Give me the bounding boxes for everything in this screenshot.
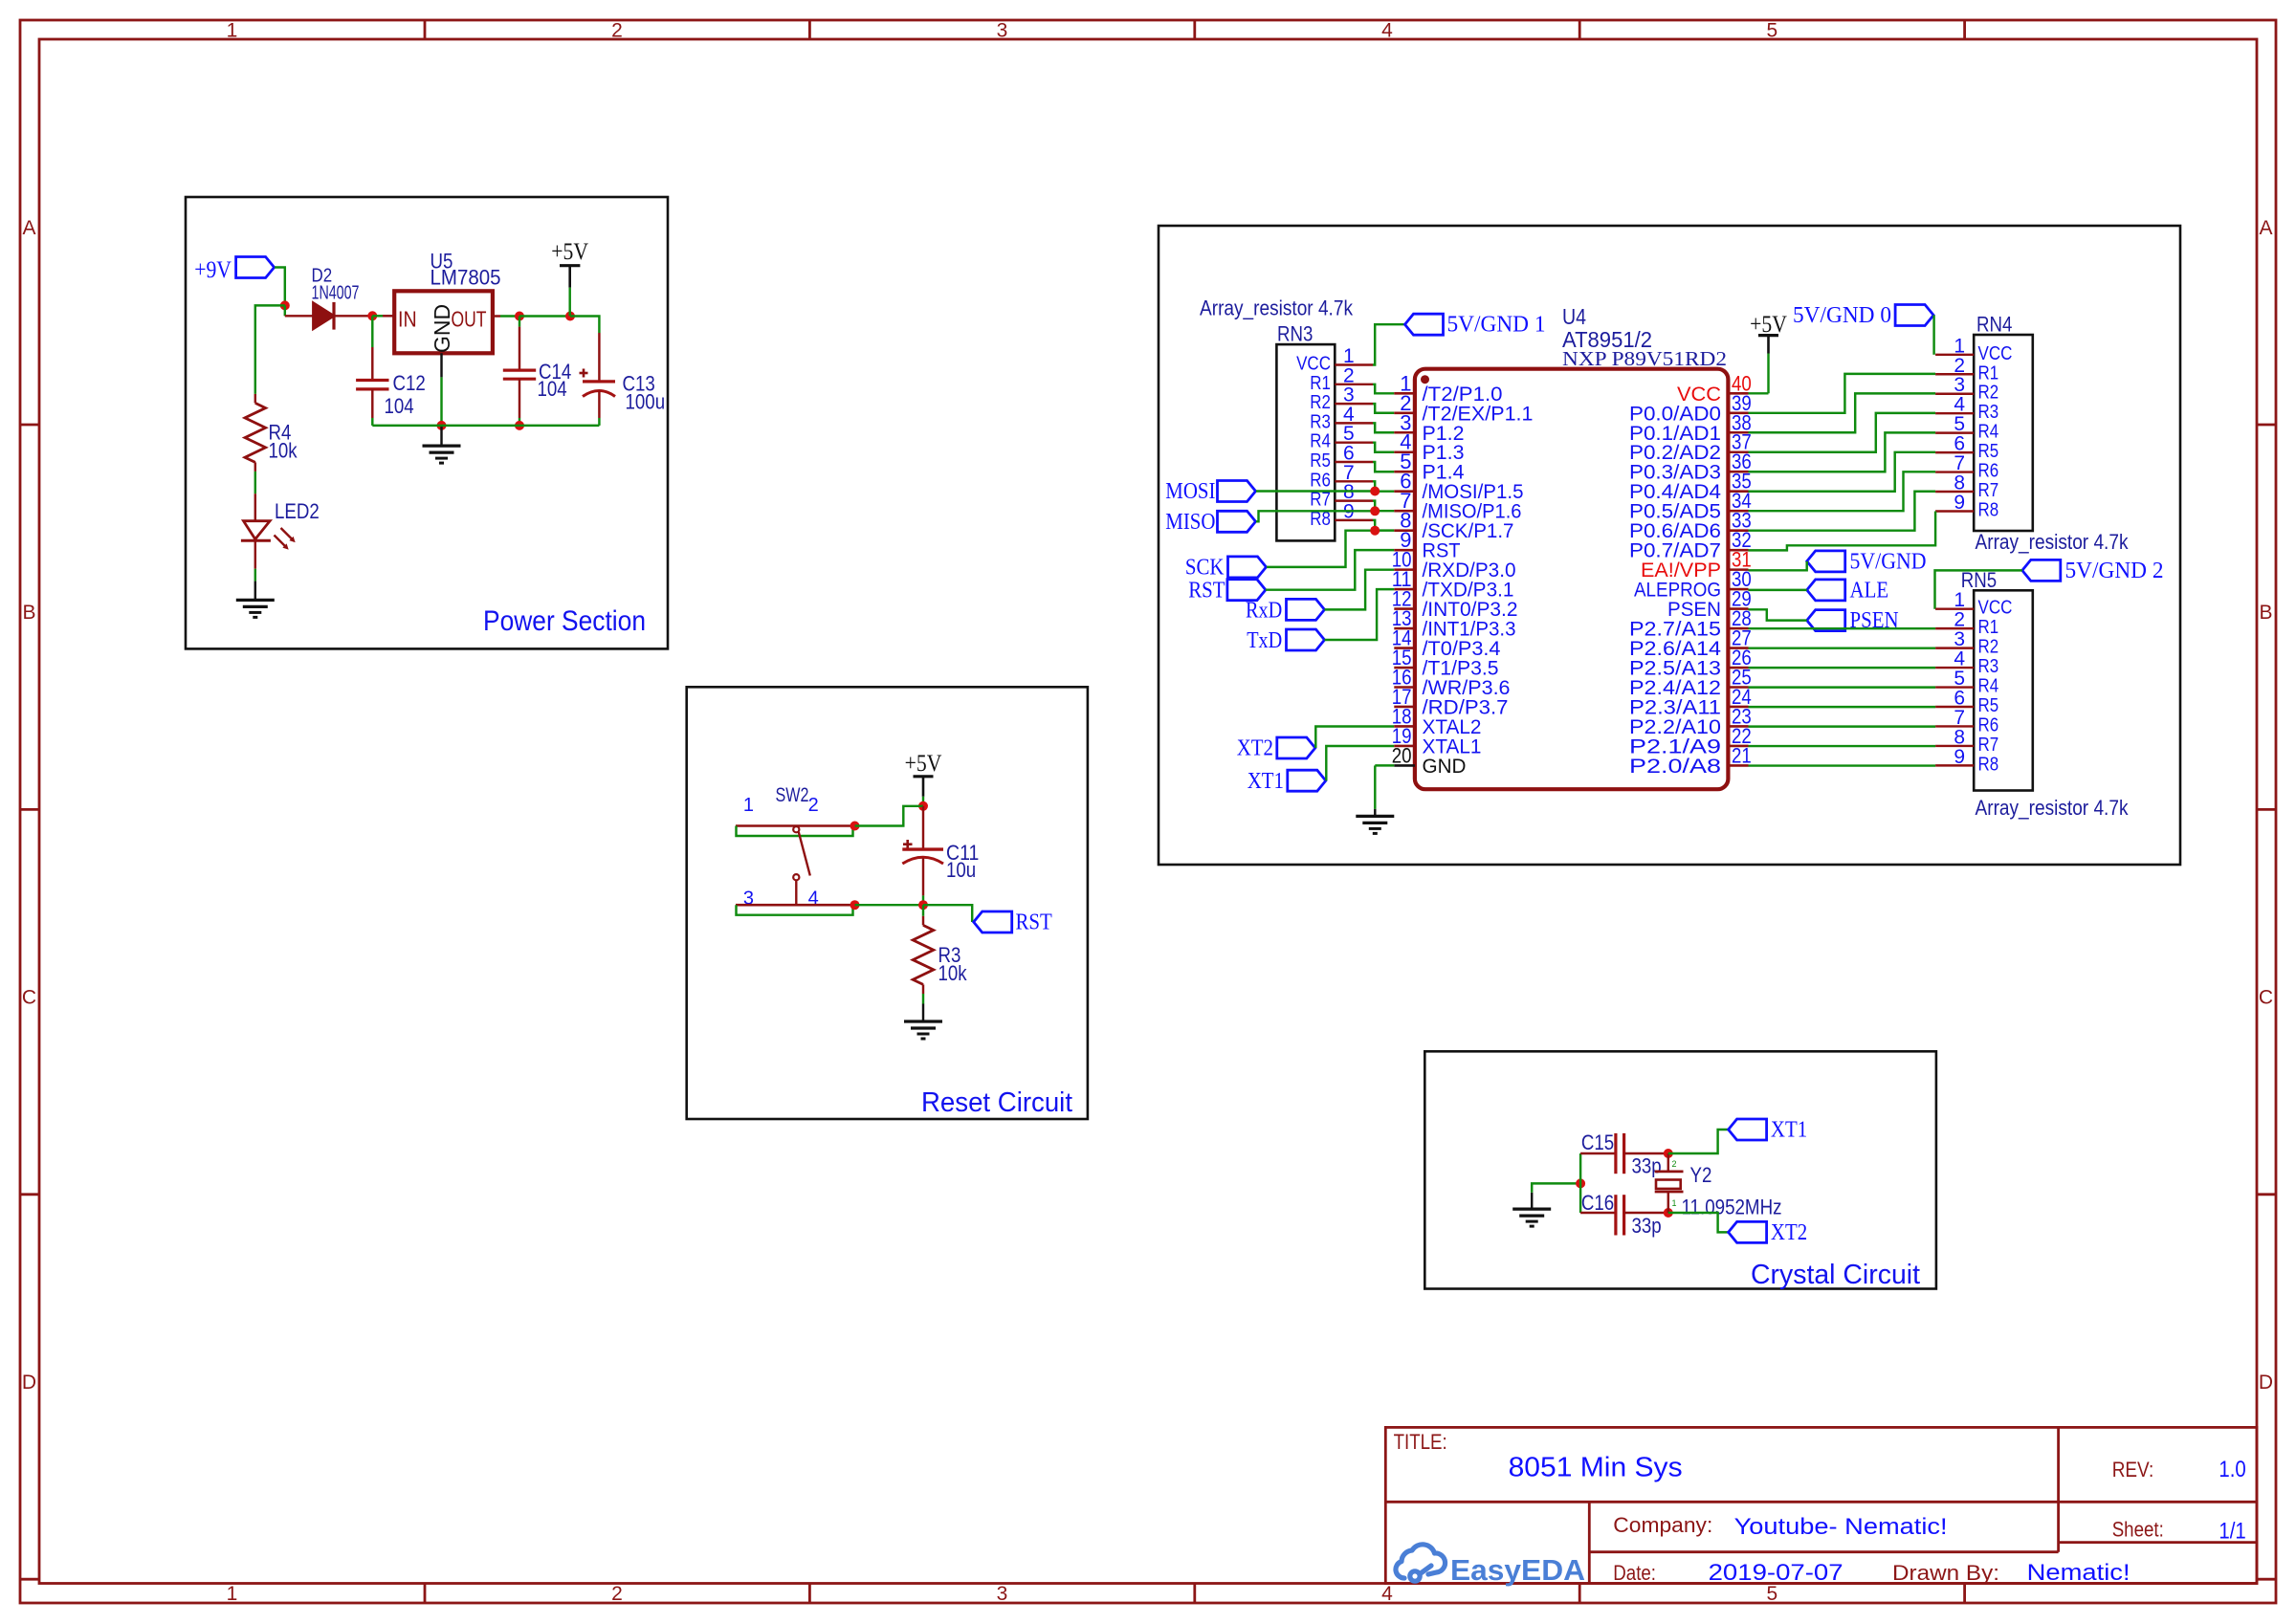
frame row ticks right: [2257, 424, 2276, 427]
RST net flag mcu: [1227, 580, 1266, 601]
+5V power symbol power section: [560, 264, 580, 267]
RN3 pin 9 stub: [1335, 519, 1373, 521]
wire XT1 to pin19 XTAL1: [1326, 746, 1394, 780]
svg-text:ALE: ALE: [1850, 578, 1889, 603]
svg-text:XT2: XT2: [1771, 1220, 1807, 1245]
MCU pin 19 stub: [1394, 745, 1415, 748]
MCU pin 35 stub: [1728, 490, 1748, 493]
XT1 net flag crystal: [1729, 1119, 1767, 1140]
svg-text:R7: R7: [1978, 735, 1999, 756]
wire RN3 pin1 to 5V/GND 1 flag: [1373, 324, 1405, 364]
RN4 pin 9 stub: [1935, 510, 1974, 512]
junction +9V node: [280, 300, 290, 310]
XT1 net flag: [1288, 770, 1326, 791]
RN4 pin 2 stub: [1935, 373, 1974, 375]
MOSI net flag: [1218, 481, 1256, 502]
MCU pin 18 stub: [1394, 725, 1415, 728]
MCU pin 24 stub: [1728, 706, 1748, 709]
svg-text:U4: U4: [1562, 304, 1586, 329]
RN3 pin 6 stub: [1335, 461, 1373, 463]
wire RN3 pin5 to MCU pin4: [1373, 443, 1394, 452]
svg-text:2: 2: [611, 1583, 623, 1605]
ground stem below U5: [440, 426, 442, 446]
svg-text:10k: 10k: [269, 439, 298, 463]
junction MOSI: [1370, 487, 1380, 496]
svg-text:EasyEDA: EasyEDA: [1450, 1553, 1585, 1587]
svg-text:1.0: 1.0: [2219, 1457, 2245, 1482]
wire RST to pin9: [1266, 550, 1394, 590]
wire MCU pin26 to RN5 pin4: [1749, 667, 1936, 669]
SCK net flag: [1228, 557, 1267, 578]
wire RN3 pin4 to MCU pin3: [1373, 423, 1394, 432]
MCU pin 23 stub: [1728, 725, 1748, 728]
MCU pin 13 stub: [1394, 627, 1415, 630]
MCU first pin dot: [1421, 375, 1429, 384]
svg-text:2: 2: [611, 20, 623, 42]
svg-text:2: 2: [1672, 1159, 1677, 1169]
junction U5 GND at rail: [437, 421, 447, 430]
svg-text:R4: R4: [1978, 676, 1999, 697]
wire RxD to pin10: [1325, 570, 1395, 610]
svg-text:R3: R3: [1310, 411, 1331, 432]
wire TxD to pin11: [1325, 589, 1395, 640]
svg-text:C16: C16: [1581, 1191, 1614, 1215]
wire MCU pin33 to RN4 pin8: [1749, 492, 1936, 531]
svg-text:B: B: [22, 602, 35, 624]
svg-text:R5: R5: [1978, 695, 1999, 716]
RN5 pin 1 stub: [1935, 607, 1974, 609]
svg-text:R2: R2: [1978, 383, 1999, 404]
MCU pin 30 stub: [1728, 588, 1748, 591]
PSEN net flag: [1807, 610, 1845, 631]
svg-text:+5V: +5V: [551, 239, 588, 265]
MCU U4 box: [1415, 369, 1729, 790]
svg-text:A: A: [2259, 217, 2272, 239]
MCU pin 1 stub: [1394, 392, 1415, 395]
svg-text:33p: 33p: [1632, 1154, 1662, 1178]
+5V power symbol reset: [914, 775, 934, 778]
wire MCU pin21 to RN5 pin9: [1749, 764, 1936, 766]
ground stem crystal: [1531, 1193, 1533, 1209]
svg-text:R5: R5: [1978, 441, 1999, 462]
LED2 bottom lead: [254, 540, 256, 568]
wire RN3 pin6 to MCU pin5: [1373, 462, 1394, 472]
svg-text:R8: R8: [1978, 499, 1999, 520]
svg-text:REV:: REV:: [2112, 1458, 2154, 1481]
svg-text:R2: R2: [1978, 637, 1999, 658]
svg-text:3: 3: [997, 20, 1008, 42]
junction at IN / C12: [367, 311, 377, 320]
svg-text:11.0952MHz: 11.0952MHz: [1682, 1196, 1782, 1219]
capacitor C11 top lead: [922, 806, 924, 849]
wire RN3 pin2 to MCU pin1: [1373, 384, 1394, 394]
wire R3 to ground: [922, 994, 924, 1004]
svg-text:VCC: VCC: [1978, 343, 2013, 364]
capacitor C11: [902, 847, 943, 850]
svg-text:9: 9: [1954, 746, 1965, 768]
svg-text:5V/GND 2: 5V/GND 2: [2065, 559, 2164, 583]
MCU pin 31 stub: [1728, 568, 1748, 571]
wire 5V/GND 0 to RN4 pin1: [1932, 316, 1934, 355]
TxD net flag: [1287, 629, 1325, 650]
MCU pin 14 stub: [1394, 647, 1415, 649]
svg-text:R4: R4: [1310, 431, 1331, 452]
wire MISO: [1256, 511, 1375, 521]
svg-text:Crystal Circuit: Crystal Circuit: [1751, 1260, 1920, 1290]
svg-text:P2.0/A8: P2.0/A8: [1629, 756, 1721, 778]
5V/GND 2 net flag: [2022, 560, 2061, 581]
ground symbol reset: [904, 1020, 942, 1022]
wire pin29 to PSEN flag: [1749, 609, 1807, 620]
svg-text:1N4007: 1N4007: [312, 283, 360, 304]
MCU pin 2 stub: [1394, 411, 1415, 414]
svg-text:20: 20: [1392, 743, 1412, 767]
resistor network RN3 box: [1276, 344, 1335, 540]
capacitor C16: [1580, 1212, 1616, 1214]
wire +9V to junction: [275, 268, 285, 306]
wire XT2 to pin18 XTAL2: [1315, 727, 1394, 749]
RN5 pin 3 stub: [1935, 647, 1974, 648]
junction C11 R3 RST: [918, 900, 928, 910]
MCU pin 28 stub: [1728, 627, 1748, 630]
svg-text:Y2: Y2: [1690, 1163, 1712, 1187]
svg-text:10u: 10u: [946, 858, 976, 882]
wire MCU pin39 to RN4 pin2: [1749, 374, 1936, 413]
C12 bottom lead: [371, 389, 373, 418]
MCU pin 10 stub: [1394, 568, 1415, 571]
wire 5V/GND 2 to RN5 pin1: [1935, 570, 2022, 608]
RN5 pin 2 stub: [1935, 627, 1974, 629]
MCU pin 27 stub: [1728, 647, 1748, 649]
MCU pin 40 stub: [1728, 392, 1748, 395]
svg-text:IN: IN: [398, 307, 417, 332]
wire OUT pin: [493, 315, 500, 317]
svg-text:Reset Circuit: Reset Circuit: [921, 1087, 1072, 1118]
wire to XT2 flag: [1668, 1213, 1729, 1232]
svg-text:XT2: XT2: [1237, 736, 1273, 761]
svg-text:2019-07-07: 2019-07-07: [1709, 1560, 1843, 1586]
svg-text:1/1: 1/1: [2219, 1519, 2245, 1545]
wire RN3 pin3 to MCU pin2: [1373, 404, 1394, 413]
svg-text:R1: R1: [1978, 617, 1999, 638]
RN3 pin 5 stub: [1335, 441, 1373, 443]
capacitor C14: [503, 369, 536, 372]
svg-text:9: 9: [1954, 492, 1965, 514]
C11 bottom lead: [922, 859, 924, 896]
wire OUT rail to +5V node: [519, 315, 570, 317]
frame row ticks left: [20, 424, 39, 427]
junction crystal gnd node: [1576, 1178, 1585, 1188]
svg-text:MISO: MISO: [1165, 510, 1215, 535]
RN5 pin 8 stub: [1935, 745, 1974, 747]
svg-text:RN5: RN5: [1961, 568, 1997, 592]
svg-text:5V/GND 0: 5V/GND 0: [1793, 303, 1891, 328]
junction SW2 pin2: [850, 822, 860, 831]
MCU pin 16 stub: [1394, 686, 1415, 689]
svg-text:RST: RST: [1188, 579, 1225, 604]
svg-text:Youtube- Nematic!: Youtube- Nematic!: [1734, 1514, 1948, 1540]
wire into diode D2 anode: [285, 315, 314, 317]
svg-text:D: D: [2259, 1372, 2273, 1394]
ground stem mcu: [1374, 809, 1376, 817]
C12 top lead: [371, 316, 373, 347]
svg-text:Sheet:: Sheet:: [2112, 1518, 2164, 1542]
svg-text:R1: R1: [1310, 373, 1331, 394]
MCU pin 38 stub: [1728, 431, 1748, 434]
wire RN3 pin8 to MCU pin7: [1373, 501, 1394, 512]
svg-text:104: 104: [385, 394, 414, 418]
wire pin31 EA to 5V/GND flag: [1749, 561, 1807, 570]
regulator U5 box: [394, 291, 493, 353]
svg-text:C12: C12: [393, 371, 426, 395]
junction MISO: [1370, 506, 1380, 516]
resistor R3: [922, 905, 924, 916]
MCU section box: [1159, 226, 2180, 865]
svg-text:VCC: VCC: [1978, 598, 2013, 619]
svg-text:R3: R3: [1978, 656, 1999, 677]
wire rail to C13 corner: [570, 317, 599, 334]
MCU pin 34 stub: [1728, 510, 1748, 513]
wire junction to U5 IN pin: [372, 315, 383, 317]
title block Sheet cell bottom: [2059, 1541, 2257, 1544]
junction XT2 node: [1664, 1208, 1673, 1218]
RN5 pin 5 stub: [1935, 686, 1974, 688]
MCU pin 22 stub: [1728, 745, 1748, 748]
junction SCK: [1370, 526, 1380, 536]
svg-text:Power Section: Power Section: [483, 605, 646, 637]
SW2 switch mechanism: [795, 824, 797, 827]
wire C15 C16 left bracket: [1579, 1153, 1581, 1213]
MCU pin 15 stub: [1394, 667, 1415, 669]
ground stem reset: [922, 1004, 924, 1022]
svg-text:+5V: +5V: [1750, 312, 1787, 338]
RxD net flag: [1287, 599, 1325, 620]
RN4 pin 3 stub: [1935, 392, 1974, 394]
XT2 net flag: [1277, 737, 1315, 758]
svg-text:R3: R3: [1978, 402, 1999, 423]
wire diode to IN junction: [334, 315, 372, 317]
title block Company Date divider: [1589, 1550, 2058, 1553]
wire junction to R4 branch: [255, 305, 285, 394]
wire MCU pin37 to RN4 pin4: [1749, 413, 1936, 452]
wire ground to crystal node: [1532, 1183, 1580, 1192]
svg-text:Array_resistor 4.7k: Array_resistor 4.7k: [1200, 296, 1354, 320]
svg-text:C: C: [22, 987, 36, 1009]
RN3 pin 4 stub: [1335, 422, 1373, 424]
RN3 pin 1 stub: [1335, 363, 1373, 365]
ground stem below LED2: [254, 582, 256, 601]
wire R4 to LED2: [254, 472, 256, 494]
capacitor C15: [1580, 1152, 1616, 1154]
svg-text:Company:: Company:: [1613, 1513, 1712, 1537]
svg-text:RxD: RxD: [1246, 598, 1282, 623]
MCU pin 3 stub: [1394, 431, 1415, 434]
title block vertical divider REV column: [2057, 1427, 2060, 1551]
wire MCU pin34 to RN4 pin7: [1749, 472, 1936, 511]
ground symbol U5: [423, 445, 461, 448]
svg-text:R8: R8: [1978, 754, 1999, 775]
LED LED2: [244, 521, 271, 539]
svg-text:VCC: VCC: [1296, 354, 1331, 375]
svg-text:XT1: XT1: [1771, 1118, 1807, 1143]
MCU pin 36 stub: [1728, 471, 1748, 473]
svg-text:OUT: OUT: [452, 307, 487, 332]
wire MCU pin24 to RN5 pin6: [1749, 706, 1936, 708]
svg-text:LM7805: LM7805: [430, 266, 501, 290]
MCU pin 26 stub: [1728, 667, 1748, 669]
wire MCU pin25 to RN5 pin5: [1749, 686, 1936, 688]
svg-text:GND: GND: [1423, 756, 1467, 778]
svg-text:SW2: SW2: [776, 784, 809, 806]
MCU pin 20 stub: [1394, 764, 1415, 767]
MCU pin 11 stub: [1394, 588, 1415, 591]
C13 plus sign: [580, 372, 588, 375]
svg-text:4: 4: [1381, 1583, 1393, 1605]
wire RN3 pin9 to MCU pin8: [1373, 520, 1394, 531]
U5 GND pin wire: [440, 353, 442, 377]
svg-text:1: 1: [227, 20, 238, 42]
wire RN3 pin7 to MCU pin6: [1373, 481, 1394, 491]
wire SCK: [1267, 531, 1375, 567]
SW2 pin3-4 bar: [736, 904, 851, 907]
svg-text:R6: R6: [1978, 461, 1999, 482]
svg-text:5V/GND: 5V/GND: [1850, 549, 1927, 574]
ground symbol crystal: [1512, 1207, 1551, 1210]
SW2 pin1-2 bar: [736, 824, 851, 827]
RN5 pin 7 stub: [1935, 725, 1974, 727]
svg-text:D: D: [22, 1372, 36, 1394]
capacitor C12: [356, 379, 388, 382]
svg-text:1: 1: [743, 795, 754, 816]
MCU pin 32 stub: [1728, 549, 1748, 552]
svg-text:RN4: RN4: [1976, 313, 2012, 337]
svg-text:R1: R1: [1978, 362, 1999, 384]
crystal Y2: [1667, 1153, 1669, 1172]
MCU pin 39 stub: [1728, 411, 1748, 414]
svg-text:RN3: RN3: [1277, 322, 1313, 346]
wire to XT1 flag: [1668, 1130, 1729, 1153]
svg-text:R7: R7: [1978, 480, 1999, 501]
RN3 pin 7 stub: [1335, 480, 1373, 482]
wire MCU pin27 to RN5 pin3: [1749, 647, 1936, 648]
svg-text:5: 5: [1767, 20, 1778, 42]
+9V net flag: [236, 257, 275, 278]
RST net flag reset circuit: [974, 911, 1012, 933]
MCU pin 6 stub: [1394, 490, 1415, 493]
svg-text:+9V: +9V: [194, 257, 232, 283]
title block divider below TITLE: [1385, 1501, 2257, 1503]
RN4 pin 8 stub: [1935, 491, 1974, 493]
wire MCU pin35 to RN4 pin6: [1749, 452, 1936, 492]
svg-text:C: C: [2259, 987, 2273, 1009]
resistor network RN4 box: [1974, 335, 2033, 531]
wire MCU pin23 to RN5 pin7: [1749, 725, 1936, 727]
RN3 pin 3 stub: [1335, 403, 1373, 405]
svg-text:TITLE:: TITLE:: [1394, 1430, 1447, 1454]
RN4 pin 5 stub: [1935, 431, 1974, 433]
junction +5V C11: [918, 801, 928, 811]
svg-text:4: 4: [1381, 20, 1393, 42]
MCU pin 29 stub: [1728, 607, 1748, 610]
ground symbol LED2: [236, 599, 275, 602]
svg-text:1: 1: [227, 1583, 238, 1605]
frame column ticks top: [424, 20, 427, 39]
junction OUT / C14: [515, 312, 524, 321]
wire MCU pin22 to RN5 pin8: [1749, 745, 1936, 747]
svg-text:2: 2: [808, 795, 819, 816]
RN3 pin 2 stub: [1335, 384, 1373, 385]
MCU pin 5 stub: [1394, 471, 1415, 473]
svg-text:R2: R2: [1310, 392, 1331, 413]
wire MCU pin28 to RN5 pin2: [1749, 627, 1936, 629]
5V/GND net flag EA: [1807, 551, 1845, 572]
svg-text:MOSI: MOSI: [1165, 479, 1215, 504]
wire MCU pin36 to RN4 pin5: [1749, 432, 1936, 472]
wire SW2 pin2 to +5V: [855, 806, 924, 826]
svg-text:R7: R7: [1310, 490, 1331, 511]
LED2 arrows: [281, 528, 293, 539]
svg-text:100u: 100u: [626, 390, 666, 414]
svg-text:GND: GND: [430, 304, 454, 353]
svg-text:8051 Min Sys: 8051 Min Sys: [1509, 1453, 1683, 1483]
svg-text:5V/GND 1: 5V/GND 1: [1447, 313, 1546, 338]
title block outer box: [1385, 1427, 2257, 1583]
wire MOSI: [1256, 490, 1375, 492]
C13 bottom lead: [598, 391, 600, 418]
svg-text:3: 3: [997, 1583, 1008, 1605]
svg-text:R6: R6: [1310, 470, 1331, 491]
XT2 net flag crystal: [1729, 1221, 1767, 1242]
svg-text:104: 104: [538, 377, 567, 401]
svg-text:C15: C15: [1581, 1130, 1614, 1154]
svg-text:Nematic!: Nematic!: [2027, 1560, 2130, 1586]
wire junction down to diode: [284, 305, 286, 316]
RN4 pin 1 stub: [1935, 354, 1974, 356]
ALE net flag: [1807, 580, 1845, 601]
svg-text:+5V: +5V: [905, 751, 942, 777]
MISO net flag: [1218, 511, 1256, 532]
SW2 wire 1 to 2: [737, 826, 853, 837]
svg-text:RST: RST: [1016, 911, 1053, 935]
frame column ticks bottom: [424, 1584, 427, 1604]
junction C14 at rail: [515, 421, 524, 430]
resistor network RN5 box: [1974, 590, 2033, 790]
junction SW2 pin4: [850, 900, 860, 910]
svg-text:LED2: LED2: [275, 499, 320, 523]
5V/GND 1 net flag: [1405, 314, 1444, 335]
wire pin30 to ALE flag: [1749, 589, 1807, 591]
diode D2: [313, 303, 334, 329]
svg-text:SCK: SCK: [1185, 556, 1225, 581]
svg-text:R5: R5: [1310, 450, 1331, 472]
wire +5V to pin40: [1749, 392, 1769, 394]
svg-text:TxD: TxD: [1247, 628, 1282, 653]
svg-text:Array_resistor 4.7k: Array_resistor 4.7k: [1976, 530, 2130, 554]
svg-text:NXP P89V51RD2: NXP P89V51RD2: [1562, 347, 1727, 370]
RN5 pin 6 stub: [1935, 706, 1974, 708]
MCU pin 12 stub: [1394, 607, 1415, 610]
C14 bottom lead: [519, 379, 520, 418]
wire MCU pin38 to RN4 pin3: [1749, 393, 1936, 432]
MCU pin 33 stub: [1728, 529, 1748, 532]
power bottom rail wire: [372, 425, 599, 427]
C13 polarized capacitor: [598, 333, 600, 382]
svg-text:Drawn By:: Drawn By:: [1892, 1561, 1999, 1585]
RN5 pin 9 stub: [1935, 764, 1974, 766]
resistor R4: [254, 394, 256, 404]
svg-text:1: 1: [1672, 1198, 1677, 1208]
Reset Circuit box: [687, 687, 1088, 1119]
